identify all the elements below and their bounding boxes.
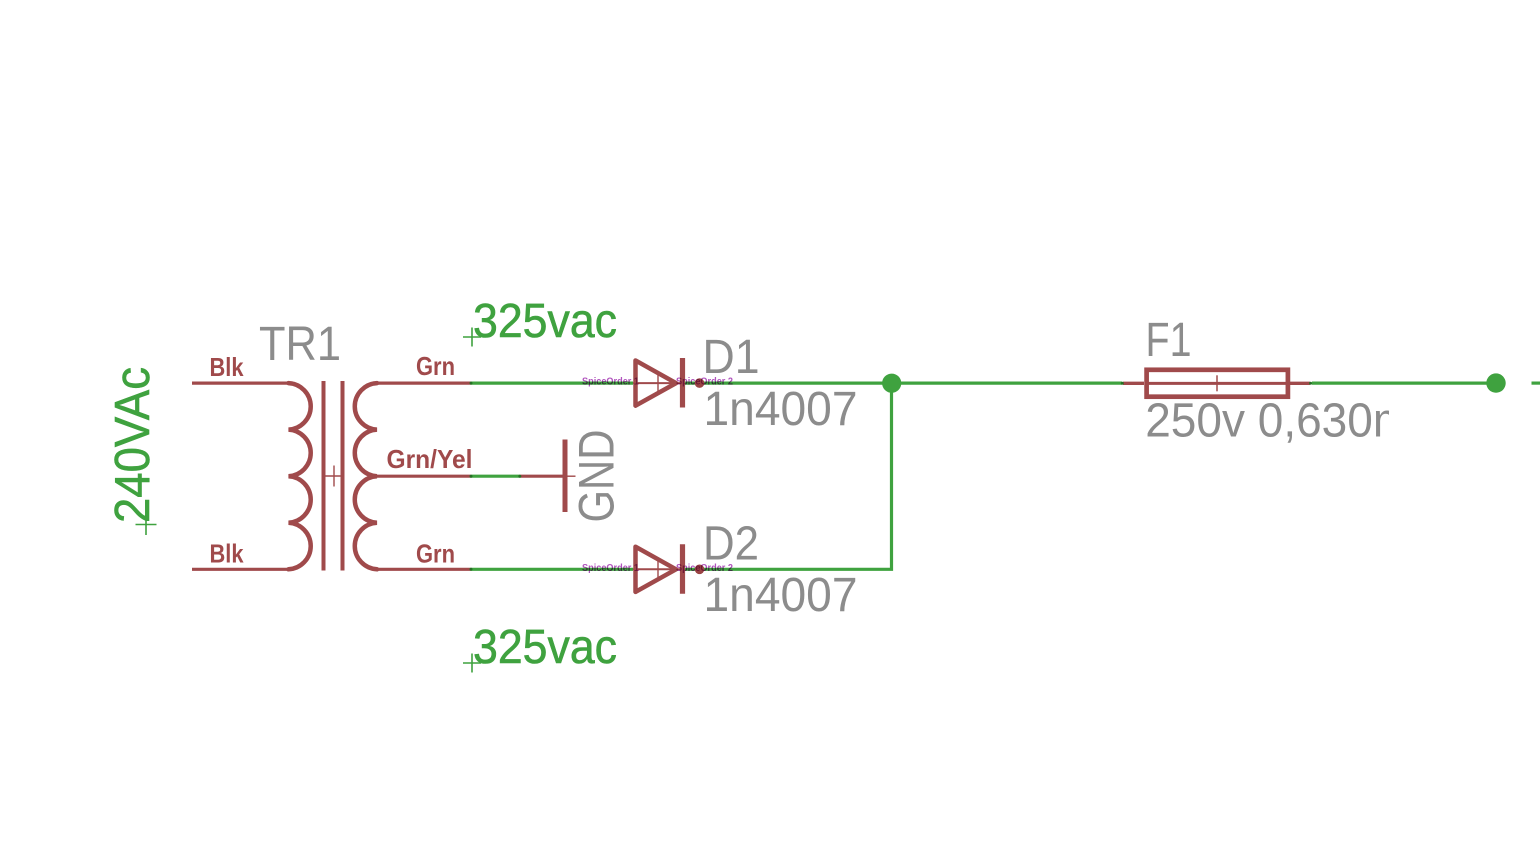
svg-text:SpiceOrder 2: SpiceOrder 2	[676, 376, 733, 388]
svg-text:Grn/Yel: Grn/Yel	[387, 444, 473, 474]
svg-text:240VAc: 240VAc	[105, 367, 160, 523]
svg-text:TR1: TR1	[259, 317, 341, 371]
svg-text:1n4007: 1n4007	[704, 382, 858, 436]
svg-text:325vac: 325vac	[473, 620, 617, 674]
svg-text:SpiceOrder 1: SpiceOrder 1	[582, 562, 639, 574]
svg-text:Blk: Blk	[210, 539, 244, 569]
svg-text:SpiceOrder 1: SpiceOrder 1	[582, 376, 639, 388]
svg-text:Grn: Grn	[416, 351, 455, 381]
svg-text:Grn: Grn	[416, 539, 455, 569]
svg-text:Blk: Blk	[210, 352, 244, 382]
svg-text:1n4007: 1n4007	[704, 568, 858, 622]
svg-text:F1: F1	[1146, 313, 1192, 367]
svg-text:250v 0,630m: 250v 0,630m	[1145, 394, 1411, 448]
svg-text:SpiceOrder 2: SpiceOrder 2	[676, 562, 733, 574]
svg-text:325vac: 325vac	[473, 294, 617, 348]
svg-text:GND: GND	[569, 430, 625, 523]
